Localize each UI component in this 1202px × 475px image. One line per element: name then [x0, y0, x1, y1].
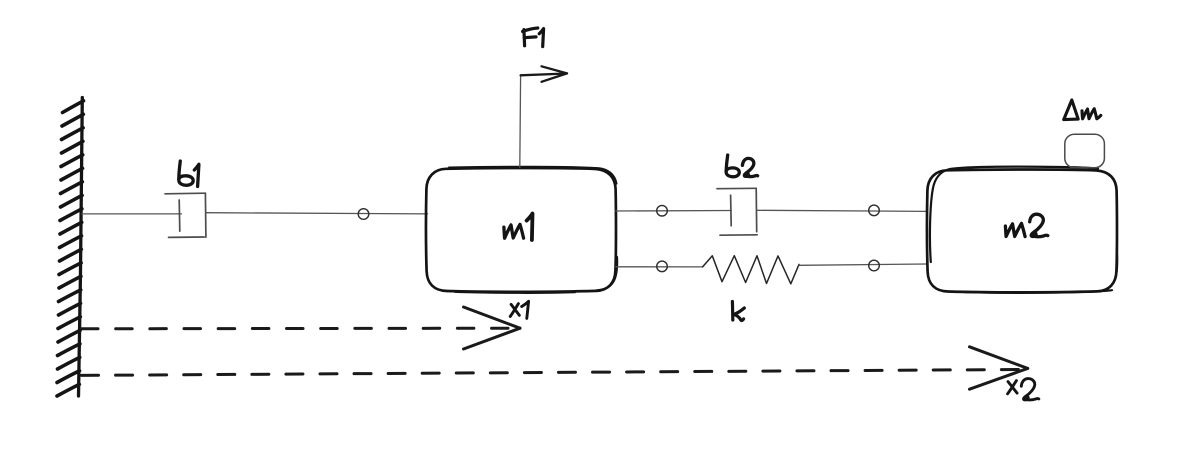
wire wall to damper b1 piston: [82, 213, 182, 215]
damper b1: [165, 193, 206, 237]
label m1: [504, 214, 533, 241]
mass m2 box: [927, 167, 1117, 293]
wire damper b2 to mass m2: [757, 210, 927, 211]
mass dm box: [1065, 134, 1105, 168]
label dm: [1064, 100, 1101, 120]
node circle top-right: [869, 205, 880, 216]
wire m1 to damper b2 piston: [616, 210, 731, 213]
label x1: [510, 301, 528, 318]
wall: [57, 98, 84, 397]
label k: [732, 302, 744, 321]
force F1 wire: [519, 76, 522, 168]
x1 arrowhead: [464, 307, 521, 349]
wire m1 to spring: [616, 266, 703, 268]
wire damper b1 to mass m1: [206, 213, 428, 214]
node circle bottom-right: [869, 260, 880, 271]
displacement x1 dashed arrow: [82, 327, 509, 331]
displacement x2 dashed arrow: [82, 370, 1019, 376]
wire spring to mass m2: [799, 264, 927, 265]
x2 arrowhead: [970, 347, 1028, 389]
label F1: [523, 28, 544, 47]
node circle bottom-left: [657, 261, 668, 272]
mass m1 box: [426, 167, 617, 293]
damper b2: [717, 188, 757, 235]
node circle top-left: [657, 205, 668, 216]
force F1 arrow: [521, 66, 567, 82]
node circle on left wire: [358, 209, 369, 220]
label b1: [179, 161, 199, 187]
label m2: [1005, 214, 1047, 237]
label x2: [1008, 379, 1039, 400]
spring k: [703, 256, 799, 284]
label b2: [726, 155, 758, 177]
